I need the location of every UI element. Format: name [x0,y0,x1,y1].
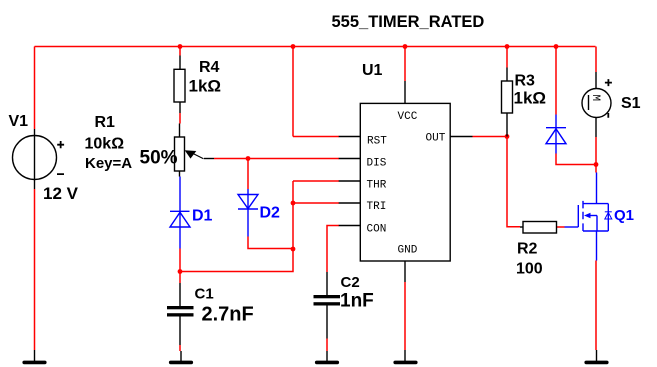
svg-text:C1: C1 [195,286,214,303]
svg-text:S1: S1 [621,95,641,112]
svg-text:Key=A: Key=A [85,155,132,172]
svg-text:DIS: DIS [367,158,387,170]
svg-text:C2: C2 [341,274,360,291]
svg-text:M: M [589,95,601,102]
svg-text:2.7nF: 2.7nF [202,304,254,326]
svg-text:VCC: VCC [398,111,418,123]
svg-text:THR: THR [367,180,387,192]
svg-text:555_TIMER_RATED: 555_TIMER_RATED [332,13,485,31]
svg-text:10kΩ: 10kΩ [85,136,125,153]
svg-text:TRI: TRI [367,201,387,213]
svg-text:R1: R1 [95,114,116,131]
svg-text:D1: D1 [192,208,213,225]
svg-text:Q1: Q1 [614,207,634,224]
svg-text:50%: 50% [140,148,178,169]
svg-text:1kΩ: 1kΩ [514,89,547,108]
svg-text:12 V: 12 V [43,184,79,203]
svg-text:RST: RST [367,136,387,148]
svg-text:100: 100 [516,261,543,278]
svg-text:1nF: 1nF [340,291,374,312]
svg-text:1kΩ: 1kΩ [189,77,222,96]
svg-text:R3: R3 [515,73,536,90]
svg-text:OUT: OUT [426,133,446,145]
svg-text:D2: D2 [260,205,281,222]
svg-text:R2: R2 [517,241,538,258]
svg-text:CON: CON [367,224,387,236]
svg-text:R4: R4 [199,59,220,76]
svg-text:GND: GND [398,245,418,257]
svg-text:V1: V1 [9,113,29,130]
svg-text:U1: U1 [362,62,383,79]
